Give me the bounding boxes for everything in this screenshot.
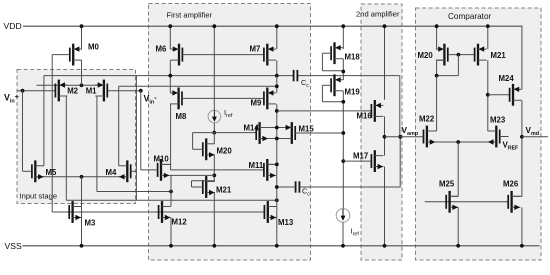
wire: M9 source up [276, 76, 278, 93]
node: a join [169, 190, 173, 194]
node: M14/M15 upper [275, 126, 279, 130]
svg-text:M14: M14 [244, 124, 260, 133]
transistor M2 [58, 80, 60, 102]
node: VSS tap M25 [456, 244, 460, 248]
node: A tap M7 drain [275, 74, 279, 78]
capacitor Cc2 [295, 181, 297, 192]
svg-text:M21: M21 [491, 51, 507, 60]
wire: M25 source to VSS [457, 207, 459, 246]
wire: nmos bias bus [52, 211, 264, 213]
wire: M20 drain up [213, 133, 215, 144]
transistor M16 [374, 100, 376, 122]
node: mirror node [435, 74, 439, 78]
svg-text:M12: M12 [172, 218, 188, 227]
node: Vamp node [383, 135, 387, 139]
wire: M17 source to VSS [384, 167, 386, 246]
wire: b (M2 drain to M11/M13 node) [66, 199, 276, 201]
node: VSS tap M3 [80, 244, 84, 248]
node: VDD tap M0 [80, 24, 84, 28]
node: Vin- [139, 89, 143, 93]
wire: M0 gate drop [51, 55, 53, 212]
svg-text:M3: M3 [85, 219, 96, 228]
node: VDD tap M16 [383, 24, 387, 28]
svg-text:M1: M1 [86, 86, 97, 95]
wire: M5 gate [23, 170, 32, 172]
wire: Vamp wire [385, 136, 424, 138]
wire: M12 source to VSS [170, 218, 172, 246]
transistor M22 [426, 126, 428, 148]
wire: M1/M2 common source [36, 84, 104, 86]
node: M18/M19 node [341, 70, 345, 74]
transistor M3 [71, 201, 73, 223]
wire: M14/M15 upper stub [268, 127, 283, 129]
wire: M10 source down [170, 175, 172, 206]
wire: M20c drain hook [437, 59, 445, 61]
svg-text:M4: M4 [106, 168, 117, 177]
wire: M11 gate line [171, 169, 264, 171]
svg-text:M6: M6 [156, 45, 167, 54]
transistor M1 [103, 80, 105, 102]
wire: Cc2 left [277, 186, 296, 188]
wire: M24 gate line [488, 94, 510, 96]
wire: Vin- down to M10 gate [140, 91, 142, 170]
svg-text:M9: M9 [251, 99, 262, 108]
node: M19 node [341, 100, 345, 104]
node: VSS tap Iref2 [341, 244, 345, 248]
wire: M8/M9 gate bus [182, 97, 264, 99]
transistor M11 [266, 159, 268, 181]
wire: M9 drain down [276, 104, 278, 246]
wire: M20c source [436, 26, 438, 49]
svg-text:VDD: VDD [4, 21, 22, 31]
transistor M13 [267, 201, 269, 223]
node: VDD tap M6 [168, 24, 172, 28]
transistor M20 [205, 138, 207, 160]
wire: B (M4 drain to M9 source) [119, 85, 277, 87]
node: VDD tap M7 [275, 24, 279, 28]
node: nmos pair tail [80, 175, 84, 179]
svg-text:M10: M10 [154, 155, 170, 164]
wire: M24 drain down [521, 100, 523, 197]
wire: M22 drain stub [427, 130, 437, 132]
wire: M15 gate line [295, 132, 343, 134]
wire: a (M1 drain to M10/M12 node) [97, 191, 171, 193]
svg-text:M26: M26 [503, 180, 519, 189]
transistor M23 [495, 126, 497, 148]
svg-text:M11: M11 [249, 161, 264, 170]
svg-text:M13: M13 [278, 218, 294, 227]
wire: cross-couple vertical [135, 76, 137, 201]
wire: Vin+ down to M5 gate [22, 91, 24, 172]
wire: M4 drain vertical [118, 86, 120, 166]
block: comparator box [416, 8, 542, 260]
wire: M25/M26 gate bus [425, 201, 509, 203]
transistor M9 [266, 88, 268, 110]
node: input pair tail [80, 83, 84, 87]
wire: M6/M7 gate bus [182, 54, 264, 56]
transistor M21 [205, 176, 207, 198]
transistor M21c [477, 44, 479, 66]
svg-text:Input stage: Input stage [20, 192, 58, 201]
current source Iref2 [336, 209, 350, 223]
wire: M26 source to VSS [521, 207, 523, 246]
svg-text:M17: M17 [353, 152, 368, 161]
wire: M14 gate line [214, 132, 256, 134]
wire: M18 drain to M19 source [342, 59, 344, 80]
node: VDD tap M21c [486, 24, 490, 28]
current source Iref1 [208, 110, 221, 123]
capacitor Cc1 [293, 70, 295, 81]
node: b join [275, 198, 279, 202]
wire: M25 drain stub [450, 195, 459, 197]
node: Vin+ branch [21, 89, 25, 93]
svg-text:M0: M0 [88, 42, 99, 51]
node: M10 source tap [212, 174, 216, 178]
wire: A down to Vamp column [399, 76, 401, 137]
node: VDD tap M20c [435, 24, 439, 28]
wire: M10 drain stub up [161, 163, 171, 165]
wire: Iref1 column [213, 26, 215, 110]
node: M20 diode node [212, 131, 216, 135]
transistor M19 [333, 74, 335, 96]
node: A tap M6 drain [168, 74, 172, 78]
wire: tail wire [436, 141, 497, 143]
VDD rail [23, 25, 523, 27]
wire: M6 drain down to M8 [169, 60, 171, 93]
svg-text:M21: M21 [216, 186, 232, 195]
wire: M11 drain stub [267, 163, 277, 165]
svg-text:M18: M18 [345, 53, 361, 62]
node: mirror gate tap [457, 53, 461, 57]
node: Vamp cap join [398, 135, 402, 139]
wire: M21c source [487, 26, 489, 49]
node: VSS tap M12 [169, 244, 173, 248]
wire: tail down to M25 [457, 142, 459, 197]
wire: M18 source [342, 26, 344, 49]
wire: Cc2 up to Vamp [399, 137, 401, 187]
svg-text:M16: M16 [357, 112, 373, 121]
transistor M10 [160, 159, 162, 181]
svg-text:M19: M19 [345, 88, 361, 97]
svg-text:M23: M23 [490, 116, 506, 125]
wire: M20 source down / M21 drain [213, 155, 215, 182]
node: M14/M15 lower [275, 137, 279, 141]
wire: M2 drain stub [59, 95, 67, 97]
svg-text:M2: M2 [67, 86, 78, 95]
wire: M18 diode hook [322, 52, 331, 54]
block: 2nd amplifier box [361, 4, 402, 260]
transistor M17 [374, 150, 376, 172]
node: M11 drain node [275, 163, 279, 167]
transistor M25 [448, 191, 450, 213]
node: VSS tap M17 [383, 244, 387, 248]
svg-text:M24: M24 [499, 74, 515, 83]
wire: Vmd out [522, 136, 548, 138]
wire: M22 drain up [436, 76, 438, 131]
wire: M16 gate line [277, 110, 371, 112]
wire: M23 drain stub [488, 130, 497, 132]
node: VSS tap M21 [212, 244, 216, 248]
wire: M21 gate hook [192, 186, 203, 188]
node: comparator tail [456, 140, 460, 144]
transistor M14 [258, 122, 260, 144]
block: input stage box [17, 70, 136, 204]
node: VDD tap M18 [341, 24, 345, 28]
wire: M5/M4 common source [36, 176, 126, 178]
wire: M19 diode hook [322, 84, 331, 86]
svg-text:First amplifier: First amplifier [167, 11, 213, 20]
wire: M0 drain to tail [81, 60, 83, 85]
svg-text:M8: M8 [176, 112, 187, 121]
wire: M1 drain down [96, 96, 98, 192]
svg-text:M20: M20 [217, 147, 233, 156]
node: VSS tap M13 [275, 244, 279, 248]
svg-text:Comparator: Comparator [448, 12, 492, 21]
wire: M3 drain up [81, 177, 83, 207]
node: M15 gate tap [341, 131, 345, 135]
svg-text:M7: M7 [250, 45, 261, 54]
node: M9 drain node [275, 109, 279, 113]
transistor M8 [177, 88, 179, 110]
transistor M20c [443, 44, 445, 66]
wire: M0 source [81, 26, 83, 49]
wire: M21c drain down [487, 60, 489, 131]
node: VDD tap Iref1 [212, 24, 216, 28]
wire: comparator mirror gate bus [448, 54, 475, 56]
wire: M2 drain down [65, 96, 67, 200]
transistor M24 [512, 84, 514, 106]
svg-text:M20: M20 [418, 51, 434, 60]
wire: M1 gate to Vin- [107, 90, 141, 92]
wire: mirror gate drop [457, 55, 459, 76]
node: Vmd node [520, 135, 524, 139]
transistor M26 [510, 191, 512, 213]
wire: Vin+ input [17, 90, 56, 92]
wire: mirror node wire [437, 75, 459, 77]
wire: M26 drain stub up [512, 195, 522, 197]
transistor M18 [333, 42, 335, 64]
transistor M0 [72, 44, 74, 66]
svg-text:2nd amplifier: 2nd amplifier [356, 10, 400, 19]
wire: A right of Cc1 [297, 75, 399, 77]
transistor M15 [291, 122, 293, 144]
wire: M6 source [169, 26, 171, 49]
wire: Cc2 right [299, 186, 400, 188]
wire: M24 source up [521, 26, 523, 89]
wire: M5 drain up [43, 76, 45, 166]
node: B end [275, 84, 279, 88]
wire: M19 drain down [342, 91, 344, 209]
transistor M7 [266, 44, 268, 66]
svg-text:VSS: VSS [5, 241, 22, 251]
wire: M21 source to VSS [213, 193, 215, 246]
wire: M14/M15 lower stub [268, 138, 283, 140]
node: VSS tap M26 [520, 244, 524, 248]
transistor M4 [126, 160, 128, 182]
svg-text:M25: M25 [439, 180, 455, 189]
wire: Iref2 to VSS [342, 222, 344, 246]
svg-text:M22: M22 [419, 115, 435, 124]
wire: M7 source [276, 26, 278, 49]
wire: M7 drain down [276, 60, 278, 75]
transistor M12 [161, 201, 163, 223]
wire: Iref1 to M20 drain [213, 123, 215, 133]
block: first amplifier box [149, 4, 311, 261]
svg-text:M5: M5 [46, 168, 57, 177]
wire: M16 source [384, 26, 386, 100]
node: M17 gate tap [341, 159, 345, 163]
transistor M5 [34, 160, 36, 182]
wire: M1 drain stub [97, 95, 104, 97]
wire: tail down to M3 [81, 177, 83, 246]
svg-text:M15: M15 [299, 125, 315, 134]
wire: M16 drain down [384, 116, 386, 155]
VSS rail [22, 245, 539, 247]
wire: M20 gate hook [193, 148, 203, 150]
wire: M10 source wire [170, 174, 215, 176]
wire: cascode rail A (M5/M6/M8 node to Cc1) [44, 75, 294, 77]
node: M24 gate tap [486, 93, 490, 97]
wire: M8 drain down to M10 [170, 104, 172, 170]
transistor M6 [178, 44, 180, 66]
node: Cc2 tap [275, 185, 279, 189]
wire: M23 gate stub VREF [500, 136, 509, 138]
